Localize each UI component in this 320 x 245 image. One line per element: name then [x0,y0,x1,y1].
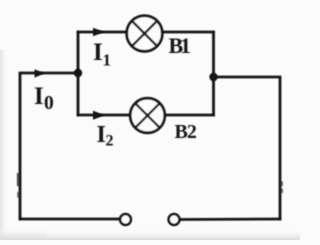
lamp B2 [130,98,165,133]
arrow I1 [93,28,105,36]
svg-text:B2: B2 [175,121,197,143]
wire: top branch through B1 [78,31,214,34]
svg-text:I: I [34,83,44,110]
label I1 [93,39,111,70]
switch S1 (open) right contact [169,214,180,225]
lamp B1 [127,16,163,52]
wire: right vertical [214,77,281,219]
svg-text:1: 1 [103,51,112,70]
wire: branch vertical left [77,32,80,115]
wire: bottom left segment [20,218,119,221]
wire: bottom branch through B2 [78,114,214,117]
wire: branch vertical right [212,32,215,115]
wire (scan blob, left vertical) [17,173,19,186]
svg-text:B1: B1 [169,33,190,58]
label I0 [34,83,54,114]
node B (right junction dot) [209,73,217,81]
switch S1 (open) left contact [120,214,131,225]
svg-text:0: 0 [44,93,54,114]
arrow I2 [93,111,105,120]
svg-text:I: I [93,39,103,66]
svg-text:2: 2 [106,133,114,150]
wire: left vertical + top feed [20,73,78,219]
wire: bottom right segment [180,218,280,221]
label I2 [97,122,114,150]
svg-text:I: I [97,122,106,148]
node A (left junction dot) [74,69,82,77]
wire (scan blob, right vertical) [281,182,283,187]
arrow I0 [35,69,45,77]
